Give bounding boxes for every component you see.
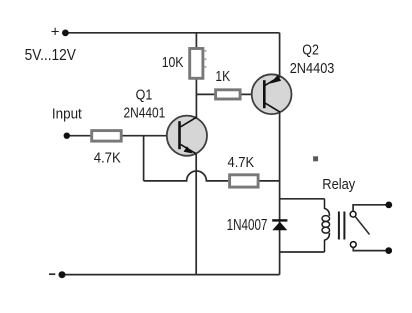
relay core bars	[339, 212, 345, 240]
svg-text:5V...12V: 5V...12V	[25, 47, 77, 64]
wire relay coil top branch	[280, 198, 325, 200]
wire bottom negative rail	[63, 274, 280, 276]
node lower terminal dot	[385, 247, 392, 254]
svg-text:10K: 10K	[162, 54, 184, 71]
transistor Q1 emitter arrow	[184, 146, 193, 153]
transistor Q1 emitter lead	[181, 144, 196, 153]
svg-text:Q1: Q1	[136, 86, 153, 103]
svg-text:Relay: Relay	[322, 176, 355, 193]
svg-text:Input: Input	[52, 106, 83, 123]
svg-text:4.7K: 4.7K	[228, 154, 255, 171]
relay switch common contact	[350, 211, 356, 217]
transistor Q2 emitter lead	[264, 76, 280, 85]
label minus	[49, 273, 55, 275]
diode D1 1N4007 cathode bar	[272, 219, 287, 221]
transistor Q2 base bar	[263, 80, 266, 108]
transistor Q1 base bar	[178, 121, 181, 149]
wire relay coil bottom branch	[280, 251, 325, 253]
svg-text:2N4401: 2N4401	[124, 105, 166, 122]
wire rail to R 10K top	[195, 33, 197, 49]
svg-text:1N4007: 1N4007	[227, 217, 268, 234]
wire feedback drop from Q1 base node	[143, 136, 145, 181]
wire R 1K right to Q2 base	[241, 93, 264, 95]
resistor R1 10K	[190, 49, 203, 79]
relay switch lever	[355, 217, 369, 235]
wire top positive rail	[67, 32, 280, 34]
resistor R2 1K	[216, 90, 241, 99]
transistor Q2 collector lead	[264, 103, 280, 113]
svg-text:1K: 1K	[215, 68, 230, 85]
svg-text:Q2: Q2	[302, 41, 319, 58]
wire R 10K bottom to Q1 collector	[195, 78, 197, 118]
wire common contact to upper terminal	[353, 205, 385, 211]
svg-text:2N4403: 2N4403	[290, 60, 335, 77]
resistor R3 4.7K input	[92, 131, 122, 142]
wire lower contact to lower terminal	[353, 248, 385, 251]
node negative terminal dot	[59, 271, 66, 278]
wire node B1 to R 1K left	[196, 93, 214, 95]
svg-text:4.7K: 4.7K	[94, 149, 121, 166]
wire Q2 emitter to rail	[279, 33, 281, 76]
transistor Q2 body	[252, 74, 292, 114]
relay coil	[322, 199, 330, 252]
relay switch lower contact	[350, 242, 356, 248]
svg-text:+: +	[51, 24, 60, 41]
wire Q1 emitter down to negative rail	[195, 154, 197, 275]
wire R 4.7K2 right to Q2 collector line	[260, 180, 280, 182]
transistor Q1 body	[167, 116, 207, 156]
wire R 4.7K right to Q1 base	[123, 135, 180, 137]
node plus terminal dot	[62, 30, 69, 37]
node input terminal dot	[64, 133, 70, 139]
node upper terminal dot	[385, 202, 392, 209]
wire input dot to R 4.7K left	[70, 135, 91, 137]
wire feedback horizontal with hop over emitter line	[144, 171, 229, 181]
transistor Q2 emitter arrow	[270, 75, 281, 84]
wire Q2 collector down to negative rail	[279, 112, 281, 274]
diode D1 1N4007 triangle	[272, 222, 287, 231]
resistor R4 4.7K feedback	[230, 175, 259, 187]
transistor Q1 collector lead	[181, 117, 197, 127]
